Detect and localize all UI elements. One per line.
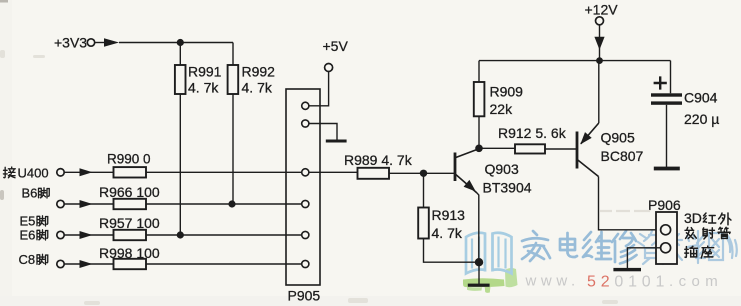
glyph 发 bbox=[685, 227, 696, 238]
arrow input 2 bbox=[80, 200, 93, 208]
glyph 管 bbox=[718, 227, 730, 238]
glyph 射 bbox=[703, 228, 715, 239]
wire R989 to Q903 base bbox=[389, 172, 454, 174]
wire row2 to P905 bbox=[146, 203, 302, 205]
watermark char 电 bbox=[560, 233, 577, 257]
resistor R909 bbox=[474, 82, 485, 116]
svg-text:C8: C8 bbox=[19, 252, 36, 267]
input label E6脚 bbox=[20, 228, 48, 243]
paper shade left edge bbox=[0, 0, 12, 306]
resistor R913 bbox=[418, 208, 429, 239]
terminal input 3 bbox=[57, 231, 64, 238]
pin P905-2 bbox=[302, 120, 309, 127]
input label C8脚 bbox=[19, 252, 48, 267]
svg-text:4. 7k: 4. 7k bbox=[188, 80, 219, 96]
wire Q903 collector up bbox=[477, 148, 480, 150]
pin P906-1 bbox=[661, 225, 671, 235]
wire +5V to P905 pin1 bbox=[309, 72, 329, 106]
svg-text:220 µ: 220 µ bbox=[684, 111, 719, 127]
transistor Q905 BC807 bbox=[577, 123, 644, 177]
svg-text:BC807: BC807 bbox=[601, 148, 644, 164]
watermark char 维 bbox=[583, 232, 611, 259]
pin P905-5 bbox=[302, 231, 309, 238]
svg-text:C904: C904 bbox=[684, 90, 718, 106]
node row2/R992 bbox=[228, 200, 235, 207]
svg-text:R992: R992 bbox=[242, 64, 276, 80]
glyph 外 bbox=[719, 213, 731, 225]
svg-text:Q903: Q903 bbox=[485, 161, 519, 177]
wire Q903 emitter down bbox=[477, 193, 479, 262]
svg-text:22k: 22k bbox=[490, 101, 514, 117]
wire row1 to R989 bbox=[146, 171, 358, 173]
svg-text:E5: E5 bbox=[20, 214, 36, 229]
svg-text:+5V: +5V bbox=[323, 38, 349, 54]
wire R992 bottom lead to B-row bbox=[232, 94, 234, 204]
terminal input 4 bbox=[57, 260, 64, 267]
node R909/R912/collector bbox=[475, 145, 483, 153]
pin P905-1 bbox=[302, 102, 309, 109]
terminal +5V bbox=[323, 38, 349, 72]
arrow input 1 bbox=[80, 168, 93, 176]
terminal +12V bbox=[585, 2, 619, 25]
label 3D红外 发射管 插座 bbox=[684, 210, 731, 258]
node +3V3/R991 bbox=[177, 39, 184, 46]
node base/R913 bbox=[420, 170, 427, 177]
ground bar P906 bbox=[613, 268, 641, 271]
ground bar at P905 bbox=[326, 140, 347, 143]
svg-text:520101: 520101 bbox=[587, 274, 669, 291]
terminal input 1 bbox=[57, 169, 64, 176]
svg-text:+12V: +12V bbox=[585, 2, 619, 18]
node emitter/R913/ground bbox=[475, 258, 483, 266]
paper shade bottom edge bbox=[0, 296, 741, 306]
scan smudge dashed streak near P906 bbox=[600, 210, 650, 212]
wire input 2 lead bbox=[64, 203, 113, 205]
input label B6脚 bbox=[22, 186, 50, 201]
wire R909 top lead bbox=[478, 61, 480, 82]
wire R913 top lead bbox=[423, 173, 425, 207]
svg-text:3D: 3D bbox=[684, 210, 702, 226]
wire R912 to Q905 base bbox=[545, 148, 576, 150]
input label E5脚 bbox=[20, 214, 48, 229]
wire to ground bbox=[478, 262, 480, 284]
svg-text:www.: www. bbox=[525, 273, 580, 290]
wire R991 top lead bbox=[179, 43, 181, 66]
wire Q905 emitter to rail bbox=[598, 61, 600, 123]
svg-text:R912 5. 6k: R912 5. 6k bbox=[498, 125, 567, 141]
svg-text:R991: R991 bbox=[188, 64, 222, 80]
resistor R991 bbox=[175, 65, 186, 94]
wire row3 to P905 bbox=[146, 234, 302, 236]
pin P906-2 bbox=[661, 243, 671, 253]
watermark char 家 bbox=[522, 231, 550, 261]
svg-text:P905: P905 bbox=[288, 287, 321, 303]
pin P905-3 bbox=[302, 169, 309, 176]
wire +3V3 rail bbox=[119, 42, 233, 44]
terminal +3V3 bbox=[54, 35, 119, 51]
pin P905-6 bbox=[302, 260, 309, 267]
svg-text:E6: E6 bbox=[20, 228, 36, 243]
watermark char 修 bbox=[612, 231, 637, 264]
arrow +12V bbox=[594, 37, 604, 50]
wire C904 bottom lead bbox=[666, 105, 668, 167]
watermark char 资 (outline style) bbox=[638, 231, 663, 264]
svg-text:.com: .com bbox=[669, 273, 723, 290]
green highlighter streak under Q903 ground bbox=[463, 268, 518, 293]
svg-text:R909: R909 bbox=[490, 84, 524, 100]
svg-text:BT3904: BT3904 bbox=[483, 180, 532, 196]
pin P905-4 bbox=[302, 200, 309, 207]
wire P905 pin2 to ground bbox=[309, 124, 337, 140]
glyph 座 bbox=[701, 246, 713, 258]
svg-text:R966 100: R966 100 bbox=[99, 184, 160, 200]
watermark book icon bbox=[466, 233, 512, 274]
ground bar C904 bbox=[654, 167, 680, 171]
glyph 插 bbox=[685, 246, 698, 257]
svg-text:B6: B6 bbox=[22, 186, 38, 201]
svg-text:R989 4. 7k: R989 4. 7k bbox=[344, 152, 413, 168]
svg-text:P906: P906 bbox=[648, 197, 681, 213]
resistor R992 bbox=[228, 65, 239, 94]
capacitor C904 bbox=[651, 61, 719, 127]
input label 接U400 bbox=[3, 166, 48, 181]
svg-text:+3V3: +3V3 bbox=[54, 35, 87, 51]
node row3/R991 bbox=[177, 231, 184, 238]
node +12V/rail bbox=[596, 57, 603, 64]
wire R913 bottom to emitter node bbox=[424, 239, 480, 263]
wire Q905 collector down to P906 bbox=[599, 177, 661, 230]
svg-text:R990 0: R990 0 bbox=[107, 152, 151, 167]
wire R991 bottom lead to E-row bbox=[179, 94, 181, 235]
wire input 3 lead bbox=[64, 234, 113, 236]
svg-text:R913: R913 bbox=[432, 207, 466, 223]
wire node to R912 bbox=[479, 147, 515, 149]
wire +12V rail bbox=[479, 60, 671, 62]
watermark char 料 (outline style) bbox=[666, 231, 698, 263]
svg-text:4. 7k: 4. 7k bbox=[432, 225, 463, 241]
transistor Q903 BT3904 bbox=[455, 149, 532, 196]
svg-text:Q905: Q905 bbox=[601, 130, 635, 146]
svg-text:4. 7k: 4. 7k bbox=[242, 80, 273, 96]
wire P906 pin2 to ground bbox=[627, 248, 660, 268]
connector P905 body bbox=[286, 89, 320, 285]
svg-text:R957 100: R957 100 bbox=[99, 215, 160, 231]
watermark char 网 (outline style) bbox=[696, 233, 737, 260]
wire row4 to P905 bbox=[146, 263, 302, 265]
wire +12V down bbox=[599, 25, 601, 61]
wire R992 top lead bbox=[232, 43, 234, 66]
glyph 红 bbox=[703, 213, 715, 223]
wire R909 bottom lead bbox=[478, 116, 480, 148]
wire input 1 lead bbox=[64, 171, 113, 173]
wire input 4 lead bbox=[64, 263, 113, 265]
svg-text:U400: U400 bbox=[18, 166, 49, 181]
arrow input 4 bbox=[80, 260, 93, 268]
terminal input 2 bbox=[57, 200, 64, 207]
ground bar Q903 bbox=[468, 284, 490, 287]
arrow input 3 bbox=[80, 231, 93, 239]
